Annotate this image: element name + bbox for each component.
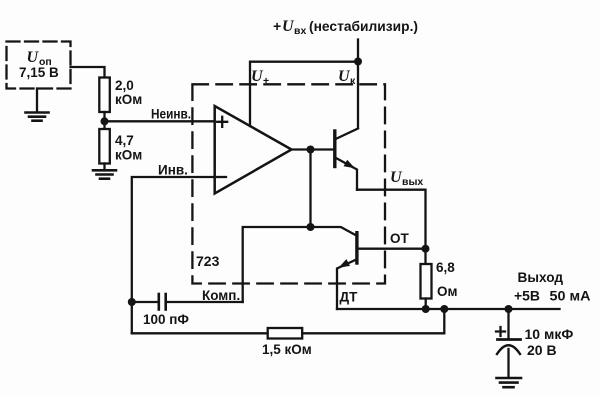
node inverting/comp bbox=[128, 298, 136, 306]
wire base Q1 from op-amp output bbox=[292, 148, 335, 150]
svg-text:50 мА: 50 мА bbox=[550, 288, 591, 304]
node op-amp output bbox=[307, 146, 315, 154]
wire U+ supply pin bbox=[250, 62, 358, 126]
svg-text:вых: вых bbox=[402, 176, 423, 188]
wire output rail bbox=[337, 269, 591, 309]
node feedback tap bbox=[440, 305, 448, 313]
capacitor C1 100 пФ bbox=[132, 294, 243, 327]
capacitor C2 10 мкФ electrolytic bbox=[496, 309, 573, 377]
svg-text:Ом: Ом bbox=[437, 284, 458, 299]
svg-text:6,8: 6,8 bbox=[436, 260, 455, 275]
wire Uоп to R1 bbox=[71, 67, 105, 78]
wire ОТ base pin bbox=[358, 231, 426, 249]
svg-text:4,7: 4,7 bbox=[115, 133, 134, 148]
ground under C2 bbox=[497, 378, 522, 387]
svg-text:Инв.: Инв. bbox=[158, 163, 188, 178]
svg-text:723: 723 bbox=[196, 253, 220, 269]
transistor Q2 (current limit) bbox=[311, 227, 359, 309]
svg-text:кОм: кОм bbox=[115, 92, 142, 107]
svg-text:Выход: Выход bbox=[518, 269, 564, 285]
svg-text:ДТ: ДТ bbox=[340, 290, 359, 305]
wire Комп pin bbox=[202, 227, 311, 303]
svg-text:(нестабилизир.): (нестабилизир.) bbox=[309, 18, 418, 34]
node +Uвх input bbox=[273, 18, 418, 66]
node R3 bottom bbox=[422, 305, 430, 313]
svg-text:+: + bbox=[273, 18, 281, 34]
resistor R2 4,7 кОм bbox=[99, 121, 142, 170]
resistor R3 6,8 Ом bbox=[421, 249, 458, 309]
svg-text:20 В: 20 В bbox=[527, 342, 557, 358]
svg-text:Комп.: Комп. bbox=[202, 288, 240, 303]
transistor Q1 (series pass) bbox=[335, 129, 358, 190]
node output cap tap bbox=[505, 305, 513, 313]
ground under Uоп bbox=[26, 89, 49, 121]
svg-text:Неинв.: Неинв. bbox=[151, 107, 191, 122]
svg-text:100 пФ: 100 пФ bbox=[143, 312, 189, 327]
svg-text:к: к bbox=[350, 75, 356, 87]
svg-text:1,5 кОм: 1,5 кОм bbox=[262, 342, 312, 357]
wire Инв (inverting input) bbox=[132, 163, 215, 334]
wire Uвых emitter output bbox=[357, 169, 426, 249]
IC 723 dashed boundary bbox=[192, 84, 385, 283]
resistor R1 2,0 кОм bbox=[99, 78, 142, 122]
svg-text:+5В: +5В bbox=[514, 288, 540, 304]
svg-text:7,15 В: 7,15 В bbox=[19, 65, 59, 80]
wire Неинв (non-inverting input) bbox=[105, 107, 215, 122]
svg-text:2,0: 2,0 bbox=[115, 78, 134, 93]
wire Uк collector pin bbox=[338, 62, 358, 128]
op-amp U1 bbox=[215, 106, 292, 194]
ground under R2 bbox=[93, 170, 116, 178]
node ОТ bbox=[422, 245, 430, 253]
svg-text:U: U bbox=[26, 49, 39, 66]
svg-text:вх: вх bbox=[294, 25, 306, 37]
reference source Uоп dashed box bbox=[7, 42, 71, 89]
node comp junction bbox=[307, 223, 315, 231]
wire output node down to comp node bbox=[309, 150, 311, 228]
svg-text:+: + bbox=[263, 75, 269, 87]
node divider bbox=[101, 117, 109, 125]
resistor R4 1,5 кОм feedback bbox=[132, 309, 445, 357]
svg-text:кОм: кОм bbox=[115, 148, 142, 163]
svg-text:ОТ: ОТ bbox=[390, 231, 410, 246]
svg-text:10 мкФ: 10 мкФ bbox=[525, 326, 574, 342]
